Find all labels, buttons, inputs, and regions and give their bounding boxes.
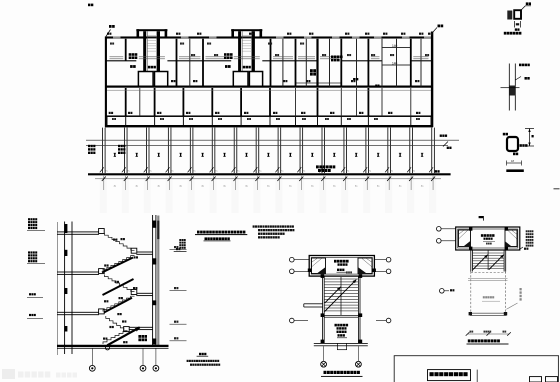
notes under A-A <box>187 360 189 362</box>
flight 2 treads L3 to F2 <box>103 256 135 272</box>
window sill double lines in upper rooms <box>110 56 124 59</box>
detail D3 labels and dims <box>503 133 505 136</box>
flight 3 treads F2 to L2 <box>105 275 135 292</box>
landing block corner fills <box>308 269 312 273</box>
dimension line left of section <box>56 222 59 355</box>
stair core B bump on top wall <box>231 29 262 31</box>
rooms below core A <box>138 72 153 87</box>
right wing light beams <box>382 46 411 49</box>
detail D1 column ring <box>514 10 521 19</box>
left notes stack 1 <box>88 145 90 147</box>
column base brace ticks <box>100 167 104 172</box>
title block divider <box>476 370 479 382</box>
below ground wall stubs <box>63 347 66 355</box>
balcony band verticals <box>107 117 108 125</box>
section cut mark A-A small <box>176 248 178 250</box>
second floor slab <box>57 271 99 274</box>
shaft walls right plan <box>469 250 472 272</box>
tiny text top-left margin <box>88 4 90 7</box>
bottom edge of right plan <box>470 312 506 315</box>
title block small cells <box>530 377 542 382</box>
long thin horizontal reference lines <box>86 139 459 142</box>
detail D2 crossing line <box>501 86 520 89</box>
leader mark top-left of plan <box>106 30 111 37</box>
tiny room labels row above top wall <box>107 33 109 35</box>
lower room texts <box>335 324 337 327</box>
leaders to bottom bubbles <box>322 346 325 361</box>
grid leaders and bubbles below section <box>91 349 94 366</box>
landing block right end room with hatch <box>358 258 372 274</box>
roof floor slab <box>57 230 99 233</box>
ground slab bold line <box>57 345 169 347</box>
leader mark top-right of plan <box>432 28 437 34</box>
dimension ticks below ground line <box>95 178 441 181</box>
section mark above right stair plan <box>479 216 484 218</box>
dashed opening below shaft <box>470 272 472 313</box>
flight 4 treads L2 to F1 <box>103 296 135 311</box>
title block left border <box>393 356 396 382</box>
plan right exterior wall <box>431 32 433 128</box>
treads right plan <box>472 252 504 255</box>
light landing lines lower <box>468 277 508 280</box>
detail D2 wall section lines <box>508 64 511 111</box>
bold label plate thickness left <box>129 53 132 56</box>
door swing marks at opening <box>336 343 339 350</box>
right side level marks of section <box>174 246 176 248</box>
flight labels <box>113 239 115 241</box>
left wall black infill segments <box>64 224 67 233</box>
right edge small mark <box>554 188 560 189</box>
bold label near core B right <box>331 56 334 59</box>
lower band bottom wall <box>105 115 433 117</box>
landing block left end room with hatch <box>312 258 326 274</box>
flight 4 bold slab <box>104 298 132 313</box>
bold label lower <box>310 69 313 72</box>
flight 1 treads roof to L3 <box>105 233 135 250</box>
leader with vertical text right side <box>506 303 517 309</box>
flight 5 treads F1 to L1 <box>106 316 128 330</box>
detail D3 column ring <box>507 137 518 151</box>
caption of center stair plan <box>324 371 327 374</box>
interior vertical walls lower band <box>125 88 127 116</box>
block corner fills <box>469 227 472 230</box>
bold label plate thickness mid <box>224 53 227 56</box>
arrows right plan <box>473 255 488 270</box>
mid horizontal wall segments y60 <box>105 60 136 61</box>
bold label T mark left <box>130 65 133 68</box>
plan left exterior wall <box>105 37 107 128</box>
plan bottom exterior wall <box>105 125 433 127</box>
center stair plan grid bubbles right <box>386 257 391 262</box>
left notes stack 2 <box>118 145 120 147</box>
upper landing block <box>456 227 520 250</box>
extension lines below ground line <box>103 176 106 190</box>
tie marks at bay centres <box>114 153 115 157</box>
half landing L3 <box>136 251 152 254</box>
watermark bottom-left <box>2 369 77 379</box>
title block top border line <box>394 354 559 357</box>
dimension row right plan <box>468 333 510 336</box>
lower room corner fills <box>321 313 325 317</box>
grey label in lower area <box>483 296 485 298</box>
bottom opening double line <box>314 342 368 345</box>
stair shaft walls <box>321 276 324 317</box>
caption right stair plan <box>468 339 471 342</box>
right end marks of strip <box>440 135 442 137</box>
bold note above ground line <box>316 165 319 168</box>
bold landing label near ground <box>138 335 141 338</box>
main floor plan - top exterior wall with window gaps <box>105 36 433 38</box>
right end room hatch <box>505 230 517 247</box>
left end room hatch <box>459 230 471 247</box>
stair core A bump on top wall <box>136 29 167 31</box>
center stair plan grid bubbles left <box>290 257 295 262</box>
right stair plan grid bubbles left <box>437 227 442 232</box>
interior vertical walls upper band <box>125 39 127 61</box>
half landing L1 <box>129 326 153 329</box>
main title line 2 <box>205 237 208 240</box>
small scale text stack left of title <box>179 239 181 241</box>
detail D2 labels <box>519 64 521 67</box>
ground floor columns strip - column double lines <box>101 128 104 174</box>
rooms below core B <box>233 72 248 87</box>
half landing L2 <box>136 292 152 295</box>
stair section right grey wall bar <box>157 216 159 347</box>
tiny labels in rooms lower band <box>109 112 111 114</box>
side wing slab left <box>304 302 323 305</box>
main title line 1 <box>197 231 200 234</box>
drawing name box <box>428 370 471 381</box>
flight 3 bold slab <box>103 279 134 295</box>
lower room walls <box>321 315 324 343</box>
major mid horizontal wall y86.5 <box>105 86 433 88</box>
block centre texts <box>481 234 483 237</box>
extra micro labels upper band <box>191 54 193 56</box>
flight 2 bold slab <box>102 258 133 273</box>
left bubble lower right plan <box>440 289 445 294</box>
stair treads <box>324 278 358 281</box>
A-A caption lower <box>199 353 201 355</box>
ground line <box>88 173 451 175</box>
stair section left wall double line <box>63 222 66 347</box>
flight 6 treads L1 to ground <box>103 331 127 344</box>
thin line below major wall <box>107 89 431 92</box>
landing block outer walls <box>309 256 374 277</box>
detail D1 dim marks <box>513 21 516 28</box>
flight 6 bold slab with arrow <box>107 327 140 345</box>
tiny labels mid band <box>171 80 173 82</box>
detail D2 hatched block <box>509 86 515 96</box>
left elevation text stacks <box>28 218 30 220</box>
landing block centre texts <box>334 260 337 263</box>
detail D1 hatched block <box>507 11 512 20</box>
title block right border <box>557 356 560 382</box>
right annotation stack <box>526 230 528 232</box>
divider right plan <box>487 251 490 271</box>
stair direction arrows <box>325 280 357 312</box>
bold label T mark mid <box>225 65 228 68</box>
lower grid bubbles <box>290 318 295 323</box>
detail D3 base bar <box>506 169 524 172</box>
notes block right of title <box>253 225 255 227</box>
start circle at ground flight <box>105 346 109 350</box>
right wall black infill segments <box>152 221 156 228</box>
faint scan artifact bands below plan <box>100 177 107 213</box>
stair section right wall double line <box>151 215 154 346</box>
third floor slab <box>57 311 99 314</box>
flight divider <box>340 277 343 315</box>
balcony band tiny labels <box>112 118 114 120</box>
